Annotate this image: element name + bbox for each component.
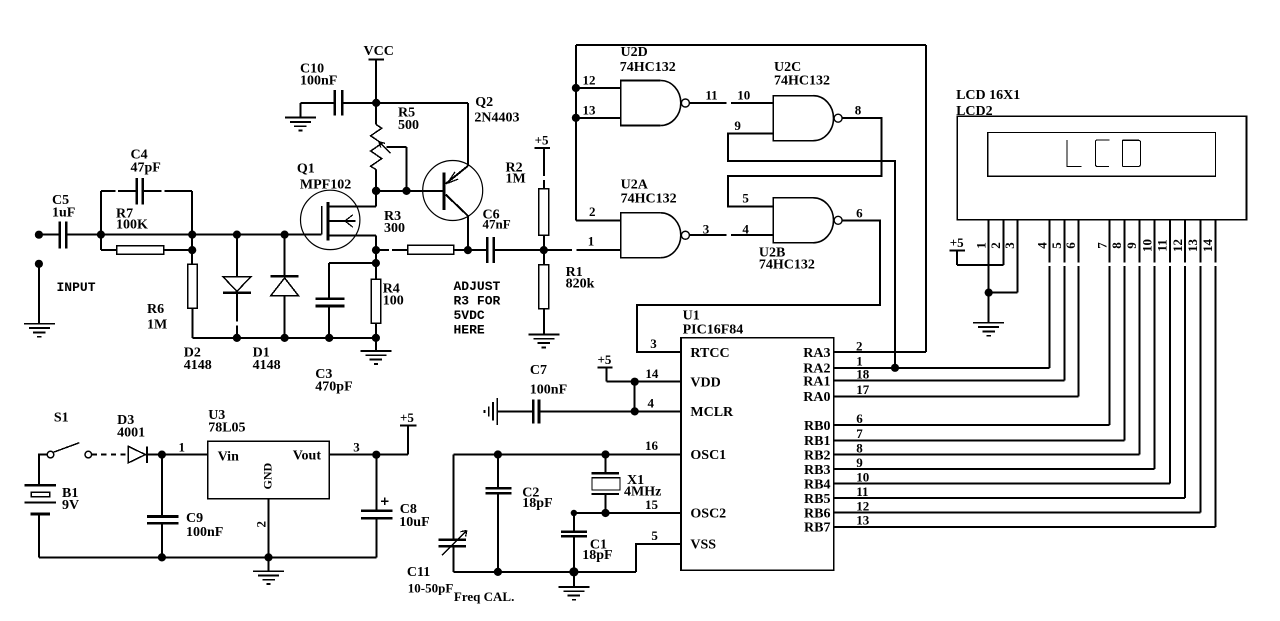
svg-text:U2A: U2A [621,178,649,193]
wire D3 to U3 [148,454,207,456]
node A junction [97,231,105,239]
wire U2A pin2 [576,219,621,221]
wire top feedback rail [576,44,926,46]
svg-text:6: 6 [856,206,863,221]
wire LCD pin 12 stub [1184,220,1186,263]
capacitor C3 [315,299,352,395]
svg-text:C11: C11 [407,565,430,580]
node C1 top [571,510,577,516]
node B junction upper [188,231,196,239]
svg-text:U1: U1 [683,309,700,324]
wire LCD pin 14 stub [1215,220,1217,263]
svg-text:R6: R6 [147,302,164,317]
node U3 ground [264,553,272,561]
node VCC junction [372,99,380,107]
wire RB7 to LCD [834,526,1216,528]
wire R4 top lead [372,259,380,267]
svg-text:4148: 4148 [184,358,212,373]
svg-text:2: 2 [254,521,269,528]
svg-text:820k: 820k [566,277,595,292]
wire D2 anode lead [233,231,241,239]
svg-text:3: 3 [650,336,657,351]
svg-text:HERE: HERE [454,323,485,338]
node C9 bottom [158,553,166,561]
wire R2 bottom [543,235,545,250]
svg-text:8: 8 [856,440,863,455]
svg-text:12: 12 [1170,239,1185,252]
crystal X1 4MHz [592,455,662,514]
node C2 bottom [494,568,502,576]
svg-text:74HC132: 74HC132 [621,192,677,207]
svg-text:MCLR: MCLR [690,405,734,420]
capacitor C6 [483,208,511,263]
node wiper junction [402,187,410,195]
resistor R3 [384,209,454,254]
node INPUT ground terminal [35,260,43,268]
resistor R6 [147,264,197,332]
wire OSC2 pin15 [574,512,681,514]
wire Q1 source down [375,236,377,250]
wire U2B output to RTCC [637,220,880,352]
power +5 at LCD pin2 [950,235,1004,265]
battery B1 9V [25,485,80,515]
svg-text:GND: GND [261,463,275,490]
ground C10 [285,118,316,131]
wire Q2 base net [376,190,443,192]
svg-text:3: 3 [703,222,710,237]
wire VDD to MCLR vertical [634,382,636,412]
svg-text:1M: 1M [506,172,526,187]
svg-text:9V: 9V [62,498,79,513]
svg-text:LCD2: LCD2 [956,104,993,119]
svg-text:RB3: RB3 [804,463,830,478]
svg-text:2: 2 [856,339,863,354]
svg-text:1uF: 1uF [52,206,75,221]
wire node A up to C4 rail [100,191,102,234]
svg-text:RB7: RB7 [804,521,830,536]
wire switch to battery [39,455,47,486]
capacitor C8 10uF [361,455,430,558]
wire U2C output pin8 to U2B pin5 [728,118,881,206]
svg-text:C7: C7 [530,363,547,378]
svg-text:Vin: Vin [218,450,239,465]
ic U1 PIC16F84 [681,309,834,571]
wire LCD pin 8 stub [1123,220,1125,263]
svg-text:LCD 16X1: LCD 16X1 [956,88,1020,103]
wire battery to rail [38,515,40,557]
svg-text:5VDC: 5VDC [454,308,485,323]
ground C7 sideways [484,398,497,425]
wire U2D input bus vertical [575,45,577,221]
svg-text:10uF: 10uF [399,515,429,530]
wire RA2 to LCD [834,367,1050,369]
wire LCD pin 7 stub [1109,220,1111,263]
svg-text:3: 3 [353,440,360,455]
svg-text:5: 5 [742,191,749,206]
resistor R5 500 trimmer [371,103,419,191]
wire left rail bottom [452,546,454,572]
power VCC symbol [364,44,394,103]
svg-text:RB5: RB5 [804,492,830,507]
wire input ground stub [38,264,40,324]
wire U2A output to U2B pin4 [690,234,727,236]
wire RA3 feedback vertical [925,45,927,352]
wire C7 left lead [497,410,533,412]
wire bottom rail mid [193,337,377,339]
wire U2D pin12 [576,87,621,89]
resistor R4 [371,279,404,323]
svg-text:13: 13 [583,103,597,118]
diode D3 4001 [117,413,148,463]
svg-text:MPF102: MPF102 [300,178,351,193]
wire RB6 to LCD [834,512,1200,514]
svg-text:VDD: VDD [690,375,720,390]
svg-text:RB1: RB1 [804,434,830,449]
wire RB5 to LCD [834,497,1185,499]
svg-text:11: 11 [856,484,868,499]
wire R3 left lead [376,249,389,251]
wire switch dashed to D3 [92,454,129,456]
svg-text:RA1: RA1 [803,374,830,389]
svg-text:78L05: 78L05 [208,421,245,436]
svg-text:5: 5 [1049,242,1064,249]
svg-text:C9: C9 [186,511,203,526]
ground LCD [973,323,1004,336]
wire R1 bottom [543,309,545,335]
resistor R1 [539,250,595,309]
nand gate U2C 74HC132 [773,60,842,141]
svg-text:8: 8 [855,103,862,118]
svg-text:2N4403: 2N4403 [474,110,519,125]
svg-text:100K: 100K [116,218,148,233]
node INPUT signal terminal [35,231,43,239]
svg-text:OSC1: OSC1 [690,448,726,463]
svg-text:RB4: RB4 [804,477,830,492]
wire LCD pin 2 stub [1002,220,1004,265]
capacitor C4 [131,148,161,205]
svg-text:2: 2 [988,242,1003,249]
wire D2 cathode lead [236,293,238,322]
svg-text:OSC2: OSC2 [690,507,726,522]
wire node to U2A pin1 [544,249,572,251]
svg-text:47pF: 47pF [131,161,161,176]
svg-text:6: 6 [856,411,863,426]
svg-text:1M: 1M [147,318,167,333]
nand gate U2A 74HC132 [621,178,690,258]
svg-text:4: 4 [1034,242,1049,249]
wire MCLR pin4 [539,410,681,412]
capacitor C2 [485,455,552,572]
svg-text:18pF: 18pF [582,548,612,563]
wire VDD pin14 [606,381,681,383]
wire LCD pin3 to ground [989,292,1018,294]
svg-text:PIC16F84: PIC16F84 [683,323,744,338]
wire LCD pin 5 stub [1063,220,1065,263]
svg-text:ADJUST: ADJUST [454,279,501,294]
node VDD junction [631,378,639,386]
wire LCD pin 11 stub [1169,220,1171,263]
wire Q1 drain up [375,191,377,207]
wire RB2 to LCD [834,454,1140,456]
svg-text:Q2: Q2 [475,95,493,110]
svg-text:INPUT: INPUT [57,280,96,295]
svg-text:2: 2 [589,204,596,219]
svg-text:7: 7 [1094,242,1109,249]
svg-text:4: 4 [648,396,655,411]
wire LCD ground stub [988,293,990,323]
wire VSS pin5 [636,544,681,572]
wire RA3 pin2 [834,351,926,353]
node U2D pin13 [572,114,580,122]
svg-text:18: 18 [856,367,870,382]
wire U2D pin13 [576,117,621,119]
wire Q2 emitter from VCC [467,103,469,166]
wire C10 left lead [300,102,335,104]
ground input [24,324,55,337]
diode D2 [184,277,251,373]
wire LCD pin 4 stub [1049,220,1051,263]
svg-text:4148: 4148 [253,358,281,373]
svg-text:17: 17 [856,382,870,397]
svg-text:RA0: RA0 [803,390,830,405]
wire ground stub mid [375,338,377,351]
svg-text:RTCC: RTCC [690,346,729,361]
svg-text:100nF: 100nF [300,74,337,89]
wire U3 ground stub [268,557,270,571]
node Q1 drain [372,187,380,195]
ground oscillator [558,572,589,600]
node comparator input [540,246,548,254]
power +5 above R2 [534,133,549,189]
wire LCD pin 10 stub [1154,220,1156,263]
wire C4 rail left segment [101,190,116,192]
power +5 at VDD [597,352,612,382]
svg-text:74HC132: 74HC132 [759,258,815,273]
svg-text:100: 100 [383,294,404,309]
svg-text:74HC132: 74HC132 [620,60,676,75]
svg-text:14: 14 [1200,239,1215,253]
svg-text:11: 11 [705,88,717,103]
svg-text:RA3: RA3 [803,346,830,361]
capacitor C5 [52,193,75,249]
svg-text:500: 500 [398,118,419,133]
wire R6 to rail [192,308,194,338]
svg-text:4001: 4001 [117,426,145,441]
node C2 top [494,450,502,458]
svg-text:6: 6 [1063,242,1078,249]
wire R7 lead left [101,249,117,251]
node R5 bottom [372,187,380,195]
node X1 top [601,450,609,458]
svg-text:10: 10 [1139,239,1154,252]
power +5 at U3 output [400,410,417,455]
svg-text:RB2: RB2 [804,448,830,463]
node LCD ground junction [985,289,993,297]
capacitor C1 [561,513,613,572]
svg-text:11: 11 [1155,239,1170,251]
node Q1 source [372,246,380,254]
svg-text:1: 1 [179,440,186,455]
svg-text:VSS: VSS [690,538,716,553]
wire Q2 collector down [467,216,469,250]
svg-text:10-50pF: 10-50pF [408,581,454,596]
wire input to C5 [39,234,60,236]
wire C3 top lead [329,262,376,264]
svg-text:Vout: Vout [293,449,322,464]
svg-text:Freq CAL.: Freq CAL. [454,589,514,604]
svg-text:RB6: RB6 [804,506,830,521]
wire LCD pin 9 stub [1138,220,1140,263]
wire RB0 to LCD [834,424,1110,426]
svg-text:U2D: U2D [621,45,648,60]
svg-text:+5: +5 [535,133,549,148]
svg-text:12: 12 [856,498,869,513]
wire R3 to C6 [454,249,488,251]
wire U3 ground pin [268,499,270,558]
svg-text:100nF: 100nF [530,383,567,398]
wire R4 bottom lead [375,323,377,338]
svg-text:+5: +5 [598,352,612,367]
node C1 bottom [569,567,578,576]
capacitor C9 [147,455,223,558]
wire D1 anode lead [284,296,286,338]
svg-text:8: 8 [1109,242,1124,249]
wire C6 to node [494,249,544,251]
wire LCD pin 6 stub [1077,220,1079,263]
transistor Q1 MPF102 [297,162,376,250]
capacitor C11 variable [407,531,467,596]
svg-text:16: 16 [645,438,659,453]
svg-text:3: 3 [1002,242,1017,249]
wire node B vertical [191,235,193,265]
display LCD2 16x1 module [956,88,1246,220]
wire left rail down [452,455,454,540]
wire Vout to +5 [329,454,408,456]
wire R5 wiper [379,142,407,191]
svg-text:9: 9 [734,118,741,133]
svg-text:300: 300 [384,221,405,236]
nand gate U2D 74HC132 [620,45,690,126]
svg-text:14: 14 [645,366,659,381]
svg-text:+5: +5 [950,235,964,250]
wire C3 bottom lead [328,306,330,338]
wire C5 to node A [66,234,101,236]
node B junction lower [188,246,196,254]
wire node A down [100,235,102,251]
ground R1 [528,335,559,348]
wire R7 lead right [164,249,192,251]
wire U2C pin9 feedback [728,133,895,367]
svg-text:13: 13 [856,513,870,528]
wire LCD pin 1 stub [988,220,990,293]
svg-text:4: 4 [742,222,749,237]
node MCLR junction [631,407,639,415]
svg-text:10: 10 [737,88,750,103]
svg-text:9: 9 [856,455,863,470]
svg-text:18pF: 18pF [522,496,552,511]
svg-text:Q1: Q1 [297,162,315,177]
wire RB1 to LCD [834,439,1125,441]
wire C4 rail down to node B [191,191,193,234]
switch S1 [47,411,91,458]
resistor R2 [506,161,549,236]
svg-text:74HC132: 74HC132 [774,74,830,89]
node C8 top [372,451,380,459]
node RA2 feedback junction [891,364,899,372]
wire RB4 to LCD [834,483,1170,485]
svg-text:1: 1 [588,234,595,249]
svg-text:7: 7 [856,426,863,441]
node X1 bottom [601,509,609,517]
node C9 top [158,451,166,459]
wire RB3 to LCD [834,468,1155,470]
svg-text:R3 FOR: R3 FOR [454,294,501,309]
wire RA1 to LCD [834,380,1065,382]
svg-text:470pF: 470pF [315,380,352,395]
svg-text:1: 1 [973,242,988,249]
wire OSC1 pin16 [453,454,681,456]
wire bottom power rail [39,556,376,558]
diode D1 [253,276,299,373]
svg-text:S1: S1 [54,411,69,426]
wire oscillator ground rail [453,571,636,573]
wire C4 rail right segment [143,190,162,192]
wire LCD pin 3 stub [1017,220,1019,293]
wire VCC rail [342,102,468,104]
label ADJUST note [454,279,501,338]
ground mid rail [360,351,391,364]
svg-text:5: 5 [651,528,658,543]
wire LCD pin 13 stub [1199,220,1201,263]
svg-text:9: 9 [1124,242,1139,249]
node U2D pin12 [572,84,580,92]
label LCD segment glyphs [1067,140,1141,166]
capacitor C10 [300,62,342,116]
svg-text:VCC: VCC [364,44,394,59]
svg-text:RB0: RB0 [804,419,830,434]
svg-text:100nF: 100nF [186,525,223,540]
resistor R7 [116,207,164,255]
node Q2 collector [464,246,472,254]
nand gate U2B 74HC132 [759,198,842,273]
svg-text:+5: +5 [400,410,414,425]
wire RA0 to LCD [834,395,1079,397]
transistor Q2 2N4403 [423,95,520,221]
wire main input net [101,234,322,236]
svg-text:12: 12 [583,73,596,88]
svg-text:15: 15 [645,497,659,512]
svg-text:13: 13 [1185,239,1200,253]
svg-text:47nF: 47nF [483,217,511,232]
capacitor C7 [530,363,567,423]
wire D1 cathode lead [281,231,289,239]
wire U2D output to U2C pin10 [690,102,727,104]
svg-text:10: 10 [856,470,869,485]
ground U3 [253,571,284,584]
regulator U3 78L05 [208,408,330,499]
